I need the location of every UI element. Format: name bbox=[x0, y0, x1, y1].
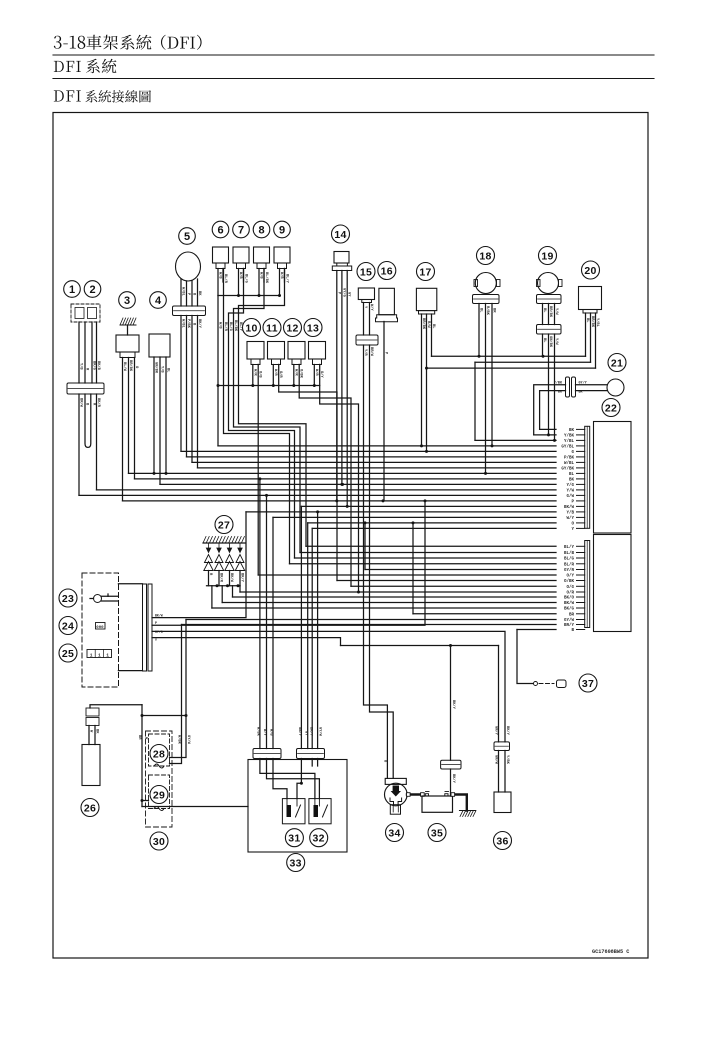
circle label 32 bbox=[310, 829, 328, 847]
wire plug3 bbox=[232, 586, 234, 597]
wire GY/Y right bbox=[576, 384, 608, 386]
connector bar 15 bbox=[356, 335, 378, 345]
svg-text:GN/Y: GN/Y bbox=[494, 726, 499, 736]
wire BL s20 bbox=[585, 313, 587, 356]
svg-text:W/B: W/B bbox=[218, 272, 223, 279]
section heading DFI 系統 bbox=[54, 59, 117, 74]
circle label 22 bbox=[602, 399, 620, 417]
wire BR/BK bbox=[128, 358, 130, 474]
sensor 16 body bbox=[379, 288, 395, 314]
svg-text:BL/Y: BL/Y bbox=[564, 545, 575, 550]
wire W/B h33 bbox=[272, 517, 274, 748]
circle label 29 bbox=[150, 786, 168, 804]
wire O/B inj10 bbox=[257, 365, 259, 576]
wire to 26 bbox=[90, 705, 142, 708]
svg-text:O/Y: O/Y bbox=[566, 574, 574, 579]
injector 12 body bbox=[288, 342, 305, 360]
wire GN/Y h33 bbox=[300, 506, 302, 748]
svg-text:6: 6 bbox=[217, 224, 223, 236]
odometer icon bbox=[96, 623, 106, 630]
svg-text:W/BK: W/BK bbox=[177, 735, 182, 745]
svg-text:Y/G: Y/G bbox=[566, 483, 574, 488]
circle label 27 bbox=[215, 516, 233, 534]
circle label 11 bbox=[263, 319, 281, 337]
svg-text:Y: Y bbox=[571, 528, 574, 532]
wire 36 b bbox=[504, 751, 506, 793]
injector 13 body bbox=[309, 342, 326, 360]
svg-text:13: 13 bbox=[307, 322, 319, 334]
svg-text:25: 25 bbox=[62, 648, 74, 660]
regulator 36 body bbox=[494, 792, 511, 813]
circle label 15 bbox=[357, 263, 375, 281]
svg-text:B: B bbox=[571, 629, 574, 633]
wire BR s18 bbox=[491, 304, 493, 446]
svg-text:16: 16 bbox=[381, 265, 393, 277]
svg-text:W/B: W/B bbox=[269, 729, 274, 736]
svg-text:8: 8 bbox=[258, 224, 264, 236]
svg-text:20: 20 bbox=[584, 265, 596, 277]
page title 3-18 車架系統(DFI) bbox=[54, 35, 202, 50]
wire BL/R coil6 bbox=[224, 269, 290, 564]
svg-text:P: P bbox=[155, 621, 157, 625]
connector bar under 14 bbox=[332, 266, 351, 271]
relay 29 coil squiggle bbox=[154, 807, 164, 811]
row B bbox=[517, 629, 556, 631]
connector bar J1 bbox=[67, 383, 104, 394]
spark plug 2 bbox=[217, 543, 221, 553]
svg-text:34: 34 bbox=[388, 827, 400, 839]
svg-text:BK/W: BK/W bbox=[564, 601, 575, 606]
circle label 33 bbox=[287, 854, 305, 872]
svg-text:GC17608BW5 C: GC17608BW5 C bbox=[592, 949, 629, 955]
svg-text:BL: BL bbox=[569, 473, 575, 477]
bus GN/BK sensors bbox=[427, 367, 596, 369]
circle label 2 bbox=[84, 281, 101, 298]
svg-text:W/R: W/R bbox=[314, 369, 319, 376]
wire 33 internal 2 bbox=[267, 759, 320, 799]
svg-text:2: 2 bbox=[89, 284, 95, 296]
sensor 3 body bbox=[116, 335, 139, 352]
svg-text:17: 17 bbox=[419, 266, 431, 278]
svg-text:BR: BR bbox=[569, 613, 575, 617]
row GY/W bbox=[186, 619, 556, 621]
svg-text:BR/Y: BR/Y bbox=[564, 623, 575, 628]
circle label 36 bbox=[494, 832, 512, 850]
svg-text:19: 19 bbox=[541, 250, 553, 262]
plug ground rail bbox=[203, 542, 245, 544]
svg-text:BL/BK: BL/BK bbox=[264, 272, 269, 284]
wire BK s22 bbox=[540, 391, 566, 430]
svg-text:W/Y: W/Y bbox=[369, 304, 374, 311]
frame ground symbol bbox=[120, 324, 136, 326]
circle label 14 bbox=[332, 225, 350, 243]
svg-text:1: 1 bbox=[98, 652, 101, 658]
ECU connector B housing bbox=[594, 535, 632, 632]
svg-text:000: 000 bbox=[96, 626, 104, 630]
wire BR to box33 bbox=[142, 806, 248, 808]
wire GY/G cluster bbox=[152, 631, 505, 742]
svg-text:GY/W: GY/W bbox=[564, 618, 575, 623]
svg-text:12: 12 bbox=[286, 322, 298, 334]
rule under title bbox=[53, 54, 654, 56]
wire P/BK bbox=[186, 316, 188, 457]
svg-text:GY/W: GY/W bbox=[186, 735, 191, 745]
svg-text:BK/Y: BK/Y bbox=[308, 727, 313, 737]
circle label 21 bbox=[608, 354, 626, 372]
svg-text:36: 36 bbox=[496, 835, 508, 847]
svg-text:35: 35 bbox=[431, 827, 443, 839]
plug bus bbox=[207, 585, 241, 587]
wire stubs bbox=[313, 365, 315, 386]
wire GY sensor14 bbox=[346, 271, 348, 507]
circle label 10 bbox=[243, 319, 261, 337]
inline connector 21 bbox=[566, 377, 570, 397]
svg-text:GN/Y: GN/Y bbox=[297, 727, 302, 737]
svg-text:Y/BL: Y/BL bbox=[564, 439, 575, 444]
svg-text:23: 23 bbox=[62, 593, 74, 605]
svg-text:10: 10 bbox=[245, 322, 257, 334]
svg-text:P/BK: P/BK bbox=[564, 455, 575, 460]
svg-text:Y/BK: Y/BK bbox=[564, 433, 575, 438]
svg-text:W/Y: W/Y bbox=[262, 729, 267, 736]
svg-text:GY/BL: GY/BL bbox=[561, 444, 574, 449]
diode 37 body bbox=[557, 680, 567, 688]
wire BL/BK coil8 bbox=[234, 269, 301, 553]
sensor 17 body bbox=[416, 288, 436, 310]
row BR/Y bbox=[182, 624, 557, 626]
wire 33 internal 1 bbox=[260, 759, 315, 799]
wire stub pair bbox=[279, 269, 281, 296]
relay 28 dashed box bbox=[149, 734, 170, 766]
wire BR/BK s20 bbox=[590, 313, 592, 362]
battery 35 body bbox=[422, 796, 453, 812]
wire GY/R row bbox=[365, 569, 556, 571]
bus BL sensors bbox=[432, 355, 586, 357]
svg-text:24: 24 bbox=[62, 620, 74, 632]
svg-text:BK: BK bbox=[569, 429, 575, 433]
wire O/BK inj12 bbox=[299, 365, 351, 587]
connector bar 33b bbox=[297, 749, 325, 759]
svg-text:BK/Y: BK/Y bbox=[451, 700, 456, 710]
svg-text:15: 15 bbox=[360, 266, 372, 278]
wire stubs bbox=[252, 365, 254, 386]
svg-text:W/BK: W/BK bbox=[256, 727, 261, 737]
svg-text:BL/B: BL/B bbox=[564, 551, 575, 556]
wire BL/W bbox=[122, 358, 124, 501]
svg-text:O/R: O/R bbox=[566, 591, 574, 596]
wire P cluster bbox=[152, 501, 425, 625]
wire stub pair bbox=[238, 269, 240, 296]
circle label 18 bbox=[477, 247, 495, 265]
wire relay29 link bbox=[142, 800, 149, 802]
svg-text:BK/Y: BK/Y bbox=[451, 774, 456, 784]
wire Y to relays bbox=[341, 645, 499, 647]
svg-text:27: 27 bbox=[218, 519, 230, 531]
svg-text:5: 5 bbox=[184, 231, 190, 243]
ignition coil 8 body bbox=[254, 247, 270, 263]
svg-text:Y/B: Y/B bbox=[79, 363, 84, 370]
svg-text:B: B bbox=[383, 760, 387, 763]
wire bbox=[84, 322, 86, 383]
svg-text:1: 1 bbox=[106, 652, 109, 658]
svg-text:BL/R: BL/R bbox=[223, 322, 228, 332]
svg-text:O/G: O/G bbox=[566, 585, 574, 590]
wire P sensor14 bbox=[336, 271, 338, 501]
wire stub pair bbox=[258, 269, 260, 296]
cluster connector bars bbox=[143, 584, 147, 671]
wire Y cluster bbox=[152, 638, 341, 646]
cluster connector neck bbox=[118, 583, 142, 585]
valve 31 body bbox=[282, 799, 305, 824]
svg-text:37: 37 bbox=[582, 678, 594, 690]
svg-text:BK/W: BK/W bbox=[564, 505, 575, 510]
wire plug1 bbox=[211, 586, 213, 608]
wire battery to pump bus bbox=[450, 769, 452, 796]
svg-text:18: 18 bbox=[479, 250, 491, 262]
svg-text:GY/BK: GY/BK bbox=[561, 466, 574, 471]
wire BK/Y h33 bbox=[311, 528, 313, 748]
svg-text:W/R: W/R bbox=[293, 369, 298, 376]
circle label 28 bbox=[150, 745, 168, 763]
wire pair 26 bbox=[88, 726, 90, 745]
svg-text:BK/B: BK/B bbox=[96, 361, 101, 371]
svg-text:7: 7 bbox=[238, 224, 244, 236]
svg-text:BL/R: BL/R bbox=[564, 562, 575, 567]
wire 33 stub a bbox=[311, 759, 313, 767]
wire O/Y inj13 bbox=[320, 365, 359, 593]
connector bar 18 bbox=[473, 295, 500, 304]
circle label 35 bbox=[428, 824, 446, 842]
svg-text:GN/W: GN/W bbox=[494, 755, 499, 765]
svg-text:BL/G: BL/G bbox=[244, 274, 249, 284]
wire GN/BK bbox=[153, 357, 155, 473]
wire plug stubs bbox=[208, 571, 210, 586]
battery feed thick bbox=[407, 793, 422, 795]
svg-text:Y/BK: Y/BK bbox=[505, 755, 510, 765]
svg-text:31: 31 bbox=[288, 833, 300, 845]
svg-text:BK/W: BK/W bbox=[155, 614, 163, 618]
wire Y/B bbox=[159, 357, 161, 484]
wire 33 stub b bbox=[317, 759, 319, 767]
sensor 19 body bbox=[538, 273, 559, 294]
wire Y/R to pump bbox=[364, 345, 388, 778]
ignition coil 9 body bbox=[274, 247, 290, 263]
svg-text:R: R bbox=[92, 403, 96, 406]
connector pair 26 bbox=[86, 708, 99, 716]
svg-text:O: O bbox=[571, 522, 574, 526]
sensor 22 body bbox=[607, 379, 624, 396]
injector 11 body bbox=[268, 342, 285, 360]
wire BR/W bbox=[78, 394, 80, 495]
sensor 5 dome bbox=[176, 252, 201, 281]
wire triple 19 bbox=[542, 304, 544, 325]
svg-text:4: 4 bbox=[155, 295, 162, 307]
circle label 31 bbox=[285, 829, 303, 847]
wire stubs 5 bbox=[180, 279, 182, 306]
svg-text:BL/Y: BL/Y bbox=[285, 274, 290, 284]
svg-text:BL/G: BL/G bbox=[228, 322, 233, 332]
injector feed bus W/R bbox=[218, 385, 320, 387]
wire link bbox=[142, 715, 186, 717]
wire stubs bbox=[293, 365, 295, 386]
svg-text:W/BL: W/BL bbox=[564, 461, 575, 466]
circle label 34 bbox=[386, 824, 404, 842]
sensor 14 body bbox=[334, 252, 349, 264]
row BR bbox=[413, 613, 556, 615]
circle label 4 bbox=[150, 292, 167, 309]
svg-text:W/Y: W/Y bbox=[566, 516, 574, 521]
ECU connector A pin bar bbox=[585, 426, 590, 528]
wire BR row src bbox=[412, 523, 414, 614]
wire GY/W h33 bbox=[317, 512, 319, 749]
svg-text:32: 32 bbox=[313, 833, 325, 845]
wire Y/BK s22 bbox=[534, 385, 566, 435]
svg-text:Y/B: Y/B bbox=[566, 510, 574, 515]
svg-text:3: 3 bbox=[124, 295, 130, 307]
svg-text:BK: BK bbox=[197, 291, 201, 296]
circle label 30 bbox=[150, 832, 168, 850]
wire B bbox=[191, 316, 193, 463]
circle label 19 bbox=[539, 247, 557, 265]
wire plug2 bbox=[221, 586, 223, 603]
sensor 18 body bbox=[475, 273, 496, 294]
wire 33 internal 4 bbox=[297, 759, 301, 799]
wire BK/W cluster bbox=[152, 512, 246, 618]
svg-text:22: 22 bbox=[605, 402, 617, 414]
svg-text:BK/G: BK/G bbox=[564, 607, 575, 612]
wire BL s17 bbox=[431, 314, 433, 356]
wire B to diode bbox=[517, 630, 533, 684]
wire O bbox=[134, 358, 136, 479]
battery ground thick bbox=[453, 795, 467, 811]
connector bar 19a bbox=[537, 295, 562, 304]
sensor 20 body bbox=[579, 287, 602, 310]
svg-text:BK: BK bbox=[569, 478, 575, 482]
svg-text:9: 9 bbox=[279, 224, 285, 236]
circle label 26 bbox=[81, 799, 99, 817]
connector bar 19b bbox=[537, 325, 562, 335]
wire BL/G coil7 bbox=[229, 269, 295, 559]
svg-text:W/B: W/B bbox=[218, 322, 223, 329]
ECU connector A housing bbox=[594, 422, 632, 534]
svg-text:33: 33 bbox=[290, 857, 302, 869]
wire bbox=[96, 322, 98, 383]
svg-text:29: 29 bbox=[153, 789, 165, 801]
svg-text:14: 14 bbox=[334, 229, 346, 241]
air switching box 33 bbox=[248, 760, 347, 853]
circle label 20 bbox=[582, 261, 600, 279]
wire GY/G sensor14 bbox=[341, 271, 343, 485]
wire R/BK s18 bbox=[485, 304, 487, 474]
ECU connector B pin bar bbox=[585, 541, 590, 628]
wire W/BK h33 bbox=[259, 479, 261, 749]
diode 37 lead bbox=[539, 683, 554, 685]
circle label 1 bbox=[64, 281, 81, 298]
instrument cluster dashed box bbox=[82, 573, 119, 687]
svg-text:W/B: W/B bbox=[259, 272, 264, 279]
ignition coil 6 body bbox=[213, 247, 229, 263]
diode 37 terminal bbox=[534, 682, 538, 686]
wire battery main bbox=[450, 646, 452, 761]
wire bbox=[78, 322, 80, 383]
svg-text:BL/G: BL/G bbox=[564, 557, 575, 562]
svg-text:1: 1 bbox=[90, 652, 93, 658]
rule under section heading bbox=[53, 78, 654, 80]
circle label 37 bbox=[579, 674, 597, 692]
svg-text:26: 26 bbox=[84, 802, 96, 814]
svg-text:28: 28 bbox=[153, 748, 165, 760]
circle label 17 bbox=[417, 263, 435, 281]
circle label 24 bbox=[59, 617, 77, 635]
wire GY h33 bbox=[307, 523, 309, 749]
sub heading DFI 系統接線圖 bbox=[54, 90, 151, 103]
spark plug 3 bbox=[227, 543, 231, 553]
svg-text:30: 30 bbox=[153, 836, 165, 848]
connector bar under 5 bbox=[173, 306, 206, 316]
wire Y/W s19 bbox=[554, 334, 556, 440]
wire B-R jumper loop bbox=[85, 394, 91, 447]
circle label 23 bbox=[59, 589, 77, 607]
svg-text:Y: Y bbox=[155, 638, 157, 642]
svg-text:Y/W: Y/W bbox=[566, 488, 574, 493]
circle label 8 bbox=[253, 221, 270, 238]
circle label 6 bbox=[212, 221, 229, 238]
connector bar 35 bbox=[441, 760, 461, 769]
sidestand switch 26 body bbox=[82, 745, 100, 786]
spark plug 4 bbox=[238, 543, 242, 553]
starter motor 34 body bbox=[385, 778, 406, 784]
wire W/B down bbox=[217, 296, 219, 446]
wire BR/W to pump bbox=[370, 345, 394, 778]
sensor 14 neck bbox=[337, 263, 348, 266]
wire 36 a bbox=[498, 751, 500, 793]
wire Y/BL s20 bbox=[595, 313, 597, 368]
wire R/W s17 bbox=[426, 314, 428, 451]
svg-text:W/BL: W/BL bbox=[181, 287, 186, 297]
diagram frame bbox=[53, 113, 648, 959]
wire W/BK relay bbox=[170, 625, 182, 764]
ground symbol battery bbox=[460, 810, 476, 812]
relay outer dashed box bbox=[146, 731, 173, 827]
wire pair 15 bbox=[363, 303, 365, 336]
connector bar 33a bbox=[253, 749, 281, 759]
svg-text:GY/R: GY/R bbox=[564, 568, 575, 573]
relay 29 dashed box bbox=[149, 775, 170, 809]
wire 33 internal 3 bbox=[273, 759, 287, 799]
svg-text:P: P bbox=[571, 500, 574, 504]
svg-text:BK/O: BK/O bbox=[564, 596, 575, 601]
svg-text:BL/BK: BL/BK bbox=[233, 320, 238, 332]
wire stubs bbox=[272, 365, 274, 386]
wire BL bbox=[165, 357, 167, 473]
circle label 16 bbox=[378, 262, 396, 280]
wire BR/BK s19 bbox=[548, 334, 550, 435]
svg-text:21: 21 bbox=[611, 357, 623, 369]
circle label 3 bbox=[119, 292, 136, 309]
svg-text:G/W: G/W bbox=[566, 494, 574, 499]
svg-text:BK/G: BK/G bbox=[92, 361, 97, 371]
svg-text:GY: GY bbox=[304, 731, 308, 736]
wire plug4 bbox=[239, 586, 241, 592]
relay 28 coil squiggle bbox=[154, 764, 164, 768]
svg-text:11: 11 bbox=[266, 322, 278, 334]
circle label 12 bbox=[284, 319, 302, 337]
svg-text:W/B: W/B bbox=[238, 272, 243, 279]
valve 32 body bbox=[309, 799, 331, 824]
circle label 13 bbox=[304, 319, 322, 337]
ignition key icon bbox=[94, 595, 102, 603]
wire BL s19 bbox=[542, 334, 544, 356]
